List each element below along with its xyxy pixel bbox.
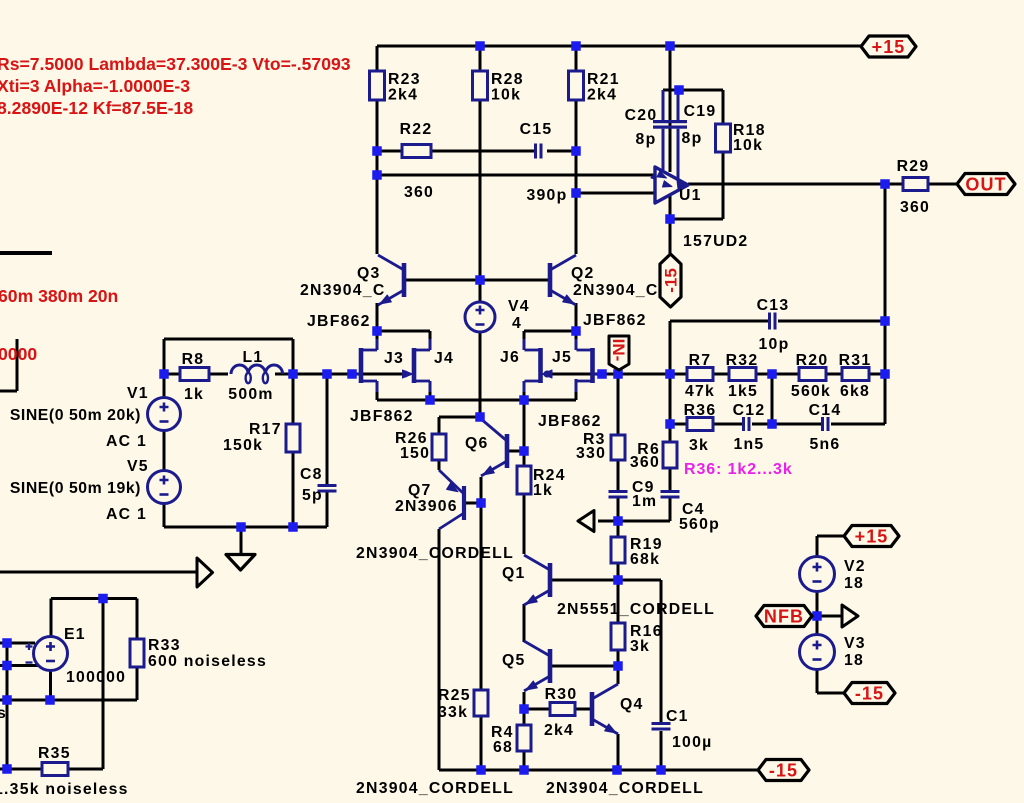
svg-text:2N3906: 2N3906 (395, 498, 458, 515)
svg-text:360: 360 (404, 184, 434, 201)
svg-text:JBF862: JBF862 (538, 413, 602, 430)
svg-text:Q1: Q1 (502, 565, 526, 582)
svg-text:1k: 1k (184, 386, 204, 403)
svg-text:500m: 500m (228, 386, 273, 403)
svg-text:100000: 100000 (66, 669, 126, 686)
svg-text:C20: C20 (625, 107, 658, 124)
svg-text:V3: V3 (844, 635, 866, 652)
svg-text:10p: 10p (759, 336, 790, 353)
svg-text:6k8: 6k8 (840, 383, 870, 400)
svg-text:s: s (0, 705, 7, 722)
svg-text:R23: R23 (388, 71, 421, 88)
svg-text:R36: 1k2...3k: R36: 1k2...3k (684, 461, 793, 478)
svg-text:-15: -15 (662, 268, 681, 293)
svg-text:1k: 1k (533, 482, 553, 499)
svg-text:JBF862: JBF862 (350, 408, 414, 425)
svg-text:R30: R30 (545, 686, 578, 703)
svg-text:R31: R31 (839, 352, 872, 369)
svg-text:SINE(0 50m 19k): SINE(0 50m 19k) (10, 480, 141, 497)
svg-text:1m: 1m (632, 493, 657, 510)
svg-text:Q7: Q7 (408, 482, 432, 499)
svg-text:NFB: NFB (764, 606, 804, 626)
svg-text:68k: 68k (630, 551, 660, 568)
svg-text:C12: C12 (733, 402, 766, 419)
svg-text:V2: V2 (844, 558, 866, 575)
svg-text:2k4: 2k4 (388, 87, 418, 104)
svg-text:J5: J5 (552, 349, 572, 366)
svg-text:2N3904_C: 2N3904_C (300, 282, 386, 299)
svg-text:C14: C14 (809, 402, 842, 419)
svg-text:60m 380m 20n: 60m 380m 20n (0, 286, 118, 306)
svg-text:Q6: Q6 (465, 435, 489, 452)
svg-text:2N5551_CORDELL: 2N5551_CORDELL (557, 601, 715, 618)
svg-text:R33: R33 (148, 637, 181, 654)
svg-text:2N3904_CORDELL: 2N3904_CORDELL (546, 780, 704, 797)
svg-text:5p: 5p (302, 487, 323, 504)
svg-text:1.35k noiseless: 1.35k noiseless (0, 781, 129, 798)
svg-text:R7: R7 (689, 352, 712, 369)
svg-text:8.2890E-12 Kf=87.5E-18: 8.2890E-12 Kf=87.5E-18 (0, 98, 193, 118)
svg-text:+15: +15 (855, 526, 889, 546)
svg-text:R35: R35 (38, 745, 71, 762)
svg-text:IN-: IN- (609, 339, 628, 362)
svg-text:100µ: 100µ (672, 734, 712, 751)
svg-text:Q4: Q4 (620, 696, 644, 713)
svg-text:Q3: Q3 (357, 265, 381, 282)
svg-text:R29: R29 (897, 158, 930, 175)
svg-text:R25: R25 (438, 687, 471, 704)
svg-text:5n6: 5n6 (810, 436, 841, 453)
svg-text:C8: C8 (300, 466, 323, 483)
svg-text:2k4: 2k4 (544, 722, 574, 739)
svg-text:47k: 47k (685, 383, 715, 400)
svg-text:1k5: 1k5 (728, 383, 758, 400)
svg-text:8p: 8p (636, 131, 657, 148)
svg-text:2N3904_C: 2N3904_C (573, 282, 659, 299)
svg-text:3k: 3k (689, 437, 709, 454)
svg-text:J6: J6 (500, 349, 520, 366)
svg-text:-15: -15 (769, 760, 798, 780)
svg-text:2N3904_CORDELL: 2N3904_CORDELL (356, 545, 514, 562)
svg-text:3k: 3k (630, 638, 650, 655)
svg-text:330: 330 (576, 445, 606, 462)
svg-text:SINE(0 50m 20k): SINE(0 50m 20k) (10, 407, 141, 424)
svg-text:390p: 390p (526, 187, 567, 204)
svg-text:C1: C1 (666, 708, 689, 725)
svg-text:C15: C15 (520, 121, 553, 138)
svg-text:18: 18 (844, 652, 864, 669)
svg-text:R8: R8 (182, 351, 205, 368)
svg-text:68: 68 (493, 739, 513, 756)
svg-text:18: 18 (844, 575, 864, 592)
svg-text:V5: V5 (127, 458, 149, 475)
svg-text:AC 1: AC 1 (106, 433, 147, 450)
svg-text:33k: 33k (438, 704, 468, 721)
svg-text:0000: 0000 (0, 344, 37, 364)
svg-text:560k: 560k (791, 383, 831, 400)
svg-text:+15: +15 (872, 37, 906, 57)
svg-text:10k: 10k (733, 137, 763, 154)
svg-text:10k: 10k (491, 87, 521, 104)
svg-text:Q5: Q5 (502, 652, 526, 669)
svg-text:360: 360 (630, 454, 660, 471)
svg-text:560p: 560p (679, 516, 720, 533)
svg-text:600 noiseless: 600 noiseless (148, 653, 267, 670)
svg-text:J4: J4 (434, 350, 454, 367)
svg-text:2k4: 2k4 (587, 87, 617, 104)
svg-text:-15: -15 (855, 683, 884, 703)
svg-text:U1: U1 (679, 187, 702, 204)
svg-text:Xti=3 Alpha=-1.0000E-3: Xti=3 Alpha=-1.0000E-3 (0, 76, 190, 96)
svg-text:Rs=7.5000 Lambda=37.300E-3 Vto: Rs=7.5000 Lambda=37.300E-3 Vto=-.57093 (0, 54, 351, 74)
svg-text:L1: L1 (243, 349, 264, 366)
svg-text:360: 360 (900, 199, 930, 216)
svg-text:1n5: 1n5 (734, 436, 765, 453)
svg-text:R36: R36 (684, 402, 717, 419)
svg-text:Q2: Q2 (571, 265, 595, 282)
svg-text:8p: 8p (682, 130, 703, 147)
svg-text:V4: V4 (508, 298, 530, 315)
svg-text:V1: V1 (127, 385, 149, 402)
svg-text:R17: R17 (249, 421, 282, 438)
svg-text:4: 4 (512, 315, 522, 332)
svg-text:JBF862: JBF862 (307, 313, 371, 330)
svg-text:R21: R21 (587, 71, 620, 88)
svg-text:R32: R32 (726, 352, 759, 369)
svg-text:OUT: OUT (965, 174, 1006, 194)
svg-text:JBF862: JBF862 (583, 312, 647, 329)
svg-text:157UD2: 157UD2 (683, 233, 748, 250)
svg-text:R28: R28 (491, 71, 524, 88)
svg-text:C13: C13 (757, 297, 790, 314)
svg-text:2N3904_CORDELL: 2N3904_CORDELL (356, 780, 514, 797)
svg-text:AC 1: AC 1 (106, 506, 147, 523)
svg-text:J3: J3 (384, 350, 404, 367)
svg-text:R22: R22 (400, 121, 433, 138)
svg-text:E1: E1 (64, 626, 86, 643)
svg-text:150k: 150k (223, 437, 263, 454)
svg-text:R20: R20 (796, 352, 829, 369)
svg-text:C19: C19 (684, 103, 717, 120)
svg-text:150: 150 (400, 445, 430, 462)
